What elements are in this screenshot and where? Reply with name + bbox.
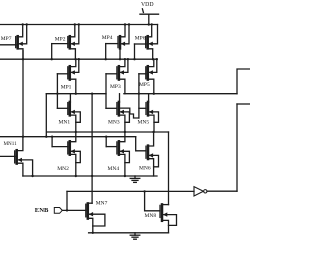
svg-text:ENB: ENB [35,207,49,214]
svg-text:MP5: MP5 [139,82,150,88]
svg-text:MN11: MN11 [4,141,18,147]
svg-text:MN7: MN7 [96,201,108,207]
svg-text:MN8: MN8 [145,213,157,219]
svg-text:MN6: MN6 [139,166,151,172]
svg-text:MN1: MN1 [59,119,71,125]
svg-text:MP4: MP4 [102,35,113,41]
svg-text:MN2: MN2 [57,166,69,172]
svg-text:MP7: MP7 [1,36,12,42]
svg-text:MN3: MN3 [108,119,120,125]
svg-text:VDD: VDD [141,2,154,8]
svg-text:MP3: MP3 [110,84,121,90]
svg-text:MP2: MP2 [55,37,66,43]
svg-text:MN4: MN4 [108,166,120,172]
svg-text:MN5: MN5 [138,119,150,125]
svg-text:MP1: MP1 [61,84,72,90]
svg-text:MP6: MP6 [135,36,146,42]
